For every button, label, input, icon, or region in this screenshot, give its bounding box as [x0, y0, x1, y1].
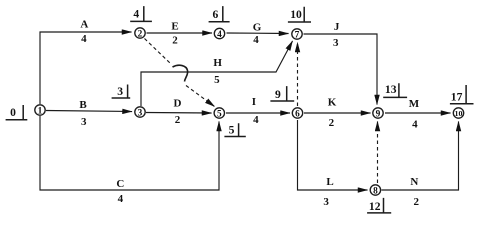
underline+tick of ET 10	[288, 7, 311, 22]
svg-text:K: K	[328, 97, 337, 109]
svg-text:3: 3	[333, 37, 339, 49]
svg-text:2: 2	[172, 35, 178, 47]
node 8 circle	[370, 185, 380, 195]
svg-text:5: 5	[217, 109, 222, 119]
svg-text:7: 7	[295, 30, 300, 40]
wire activity N (8 to 10)	[382, 122, 459, 191]
svg-text:N: N	[410, 176, 418, 188]
svg-text:H: H	[213, 57, 222, 69]
svg-text:J: J	[334, 21, 340, 33]
svg-text:A: A	[80, 19, 88, 31]
wire activity J (7 to 9)	[304, 34, 378, 105]
node 9 circle	[373, 108, 383, 118]
wire activity G (4 to 7)	[227, 32, 289, 35]
svg-text:9: 9	[376, 109, 381, 119]
dummy arrow 2 to 5 (dashed)	[145, 39, 172, 65]
svg-text:9: 9	[275, 88, 281, 101]
dummy arrow 6 to 7 (dashed)	[297, 43, 299, 107]
underline+tick of ET 5	[224, 123, 245, 136]
svg-text:17: 17	[451, 90, 463, 103]
svg-text:L: L	[326, 176, 333, 188]
wire activity C (1 to 5)	[40, 116, 219, 190]
node 7 circle	[292, 29, 302, 39]
svg-text:6: 6	[295, 109, 300, 119]
wire activity M (9 to 10)	[385, 112, 451, 114]
node 5 circle	[214, 108, 224, 118]
underline+tick of ET 12	[367, 198, 391, 213]
svg-text:M: M	[409, 98, 420, 110]
wire activity K (6 to 9)	[304, 112, 371, 114]
svg-text:E: E	[171, 21, 178, 33]
svg-text:G: G	[253, 21, 262, 33]
svg-text:D: D	[174, 98, 182, 110]
underline+tick of ET 0	[6, 105, 28, 120]
wire activity I (5 to 6)	[226, 112, 290, 114]
crossing hop on dummy 2-5 over wire H	[173, 65, 188, 81]
svg-text:1: 1	[38, 106, 43, 116]
svg-text:4: 4	[253, 34, 259, 46]
underline+tick of ET 13	[383, 83, 407, 97]
node 4 circle	[214, 28, 224, 38]
svg-text:I: I	[252, 96, 256, 108]
svg-text:5: 5	[229, 123, 235, 136]
svg-text:4: 4	[81, 33, 87, 45]
underline+tick of ET 3	[112, 85, 131, 99]
wire activity B (1 to 3)	[46, 111, 132, 112]
svg-text:10: 10	[455, 109, 463, 118]
wire activity E (2 to 4)	[147, 32, 213, 34]
svg-text:2: 2	[414, 196, 420, 208]
svg-text:4: 4	[253, 114, 259, 126]
underline+tick of ET 17	[450, 85, 474, 104]
svg-text:13: 13	[385, 83, 397, 96]
svg-text:10: 10	[290, 8, 302, 21]
wire activity A (1 to 2)	[40, 32, 132, 104]
svg-text:B: B	[79, 99, 87, 111]
node 6 circle	[292, 108, 302, 118]
svg-text:5: 5	[214, 74, 220, 86]
svg-text:2: 2	[138, 29, 143, 39]
svg-text:2: 2	[329, 117, 335, 129]
svg-text:4: 4	[217, 30, 222, 40]
svg-text:C: C	[116, 178, 124, 190]
svg-text:12: 12	[369, 200, 381, 213]
wire activity H (3 to 7)	[141, 41, 293, 106]
svg-text:3: 3	[323, 196, 329, 208]
svg-text:3: 3	[138, 108, 143, 118]
svg-text:8: 8	[373, 186, 378, 196]
svg-text:3: 3	[117, 85, 123, 98]
wire activity D (3 to 5)	[146, 112, 212, 115]
svg-text:0: 0	[10, 106, 16, 119]
dummy arrow 8 to 9 (dashed)	[377, 122, 379, 184]
svg-text:4: 4	[412, 118, 418, 130]
underline+tick of ET 6	[209, 6, 230, 22]
svg-text:6: 6	[213, 8, 219, 21]
svg-text:2: 2	[175, 114, 181, 126]
underline+tick of ET 9	[270, 86, 294, 101]
svg-text:4: 4	[133, 8, 139, 21]
svg-text:3: 3	[81, 116, 87, 128]
node 3 circle	[135, 107, 145, 117]
underline+tick of ET 4	[130, 6, 152, 21]
node 2 circle	[135, 28, 145, 38]
svg-text:4: 4	[118, 193, 124, 205]
wire activity L (6 to 8)	[298, 120, 368, 190]
node 1 circle	[35, 105, 45, 115]
node 10 circle	[453, 108, 463, 118]
